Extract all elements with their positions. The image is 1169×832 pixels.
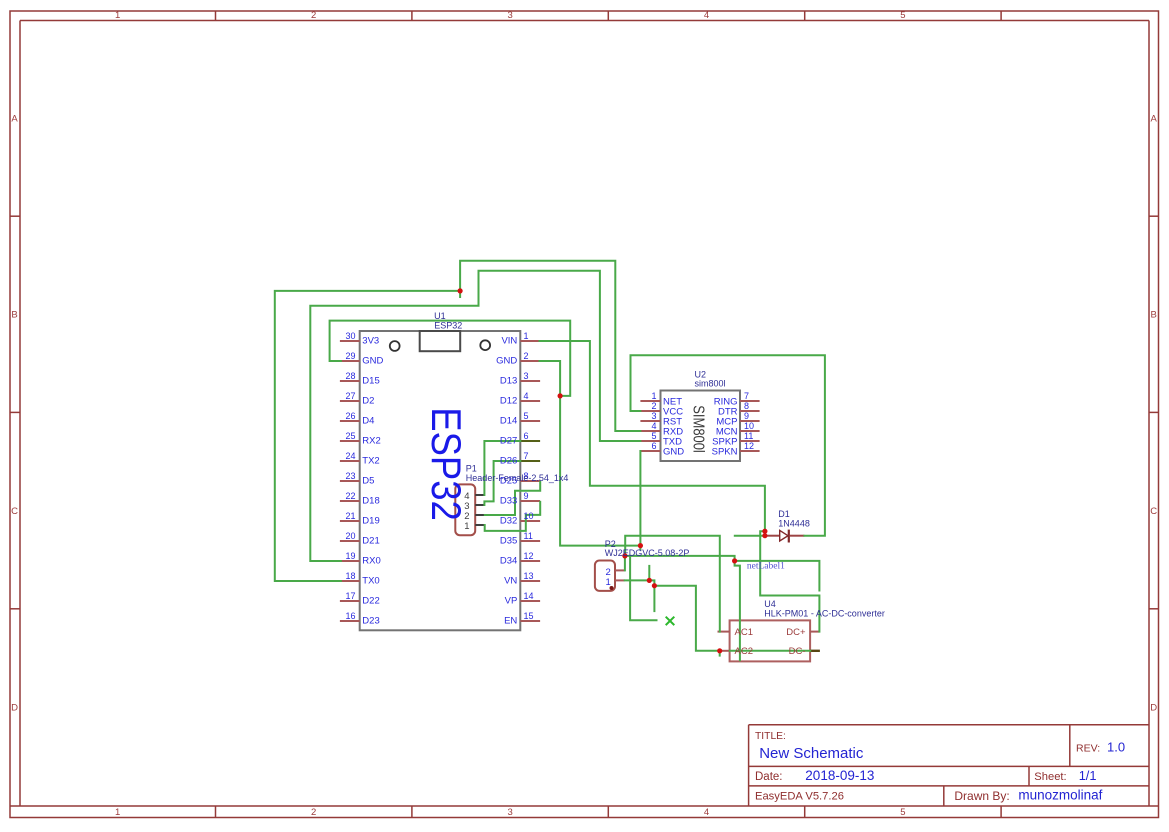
svg-text:21: 21 — [345, 511, 355, 521]
title block — [749, 725, 1149, 806]
svg-text:B: B — [1151, 310, 1157, 321]
svg-text:19: 19 — [345, 551, 355, 561]
svg-text:RX0: RX0 — [362, 555, 380, 566]
wire TX0-RXD: junction J1 up-right-down to U2 pin4 RXD — [460, 261, 640, 431]
svg-text:EN: EN — [504, 615, 517, 626]
svg-text:SPKN: SPKN — [712, 446, 738, 457]
U1 right pin numbers — [524, 331, 534, 621]
svg-text:17: 17 — [345, 591, 355, 601]
U1 value label ESP32 — [434, 320, 462, 330]
svg-text:23: 23 — [345, 471, 355, 481]
svg-text:D2: D2 — [362, 395, 374, 406]
P2 reference label — [605, 539, 616, 549]
svg-text:C: C — [1150, 506, 1157, 517]
svg-text:Date:: Date: — [755, 771, 783, 783]
svg-text:HLK-PM01 - AC-DC-converter: HLK-PM01 - AC-DC-converter — [764, 608, 885, 618]
svg-text:12: 12 — [744, 441, 754, 451]
svg-text:4: 4 — [704, 807, 709, 818]
wire D1 cathode right-up-left-down to U2 pin2 VCC — [631, 355, 825, 535]
svg-text:1: 1 — [524, 331, 529, 341]
svg-text:D27: D27 — [500, 435, 517, 446]
svg-text:TX0: TX0 — [362, 575, 379, 586]
svg-text:D1: D1 — [778, 509, 790, 519]
wire AC2 row through U4 body to DC- — [730, 650, 810, 652]
svg-text:1: 1 — [115, 807, 120, 818]
svg-text:D21: D21 — [362, 535, 379, 546]
U2 right pin stubs (7..12) — [740, 401, 760, 451]
svg-text:Header-Female-2.54_1x4: Header-Female-2.54_1x4 — [466, 473, 569, 483]
U2 left pin names — [663, 396, 684, 457]
wire stub below junction Dg — [719, 652, 721, 656]
U1 pin 6 D27 stub (wire overlap olive) — [520, 440, 540, 442]
svg-text:VP: VP — [505, 595, 518, 606]
svg-text:WJ2EDGVC-5.08-2P: WJ2EDGVC-5.08-2P — [605, 548, 690, 558]
junction Db — [622, 553, 627, 558]
svg-text:GND: GND — [496, 355, 517, 366]
wire P1 pin1 down-right-up to U1 D33 — [485, 502, 541, 531]
svg-text:5: 5 — [651, 431, 656, 441]
svg-text:14: 14 — [524, 591, 534, 601]
svg-text:D5: D5 — [362, 475, 374, 486]
U1 right pin names — [496, 335, 517, 626]
svg-text:26: 26 — [345, 411, 355, 421]
U4 pin labels — [735, 627, 806, 657]
U1 right pin stubs (pins 1..5,8..15) — [520, 341, 540, 621]
svg-text:DC-: DC- — [789, 646, 806, 657]
IC U2 sim800l body — [661, 391, 741, 462]
U2 left pin stubs (1..6) — [640, 401, 660, 451]
wire Db right to corner and down to junction Dc — [625, 556, 735, 561]
U4 reference label — [764, 599, 776, 609]
module U4 HLK-PM01 body — [730, 620, 811, 661]
svg-text:D32: D32 — [500, 515, 517, 526]
U2 right pin names — [712, 396, 738, 457]
svg-text:VN: VN — [504, 575, 517, 586]
U2 right pin numbers — [744, 391, 754, 451]
svg-text:20: 20 — [345, 531, 355, 541]
svg-text:10: 10 — [744, 421, 754, 431]
wire Db up-right-down to U4 AC1 — [625, 536, 720, 632]
U4 value label HLK-PM01 - AC-DC-converter — [764, 608, 885, 618]
svg-text:2018-09-13: 2018-09-13 — [805, 768, 874, 783]
svg-text:GND: GND — [663, 446, 684, 457]
connector P1 Header-Female body — [455, 484, 475, 535]
junction Da — [638, 543, 643, 548]
svg-text:2: 2 — [311, 10, 316, 21]
U2 center vertical text SIM800l — [689, 405, 706, 453]
svg-text:TITLE:: TITLE: — [755, 731, 786, 742]
svg-text:18: 18 — [345, 571, 355, 581]
svg-text:munozmolinaf: munozmolinaf — [1018, 788, 1102, 803]
svg-text:4: 4 — [524, 391, 529, 401]
svg-text:New Schematic: New Schematic — [759, 745, 864, 762]
svg-text:GND: GND — [362, 355, 383, 366]
svg-text:1.0: 1.0 — [1107, 739, 1125, 754]
wire GND: U1 pin2 GND right-down through J2 to junction Da — [540, 361, 640, 546]
svg-text:D15: D15 — [362, 375, 379, 386]
svg-text:RX2: RX2 — [362, 435, 380, 446]
wire VIN: U1 pin1 VIN right-down-right-down to junction E1/E2 — [540, 341, 765, 536]
svg-text:1: 1 — [606, 577, 611, 588]
wire no-connect branch down from Db rail — [630, 556, 656, 620]
wire D1 anode lead wire — [735, 535, 765, 537]
svg-text:5: 5 — [900, 10, 905, 21]
svg-text:7: 7 — [524, 451, 529, 461]
svg-text:D4: D4 — [362, 415, 374, 426]
svg-text:10: 10 — [524, 511, 534, 521]
svg-text:27: 27 — [345, 391, 355, 401]
svg-text:ESP32: ESP32 — [423, 407, 470, 521]
U2 reference label — [695, 369, 707, 379]
U1 pin 7 D26 stub (wire overlap olive) — [520, 460, 540, 462]
svg-text:VIN: VIN — [501, 335, 517, 346]
P1 pin numbers 4,3,2,1 — [464, 491, 469, 532]
svg-text:D35: D35 — [500, 535, 517, 546]
svg-text:D23: D23 — [362, 615, 379, 626]
svg-text:D13: D13 — [500, 375, 517, 386]
svg-text:1: 1 — [115, 10, 120, 21]
svg-text:1/1: 1/1 — [1079, 768, 1097, 783]
net label netLabel1 — [747, 561, 785, 571]
svg-text:1: 1 — [651, 391, 656, 401]
wire TX0-RXD: U1 pin18 TX0 left-up-right to junction J1 — [275, 291, 459, 581]
U4 pin stub AC2 — [720, 650, 730, 652]
wire RX0-TXD: U1 pin19 RX0 to U2 pin5 TXD — [310, 271, 640, 561]
svg-text:28: 28 — [345, 371, 355, 381]
wire GND: U1 pin29 GND left-up-right to junction J2 — [330, 321, 571, 396]
svg-text:D: D — [11, 703, 18, 714]
D1 value label 1N4448 — [778, 519, 810, 529]
U4 pin stub AC1 — [718, 631, 730, 633]
wire P2 pin2 up to junction Db — [624, 556, 626, 571]
D1 reference label — [778, 509, 790, 519]
svg-text:A: A — [11, 114, 18, 125]
svg-text:3: 3 — [524, 371, 529, 381]
svg-text:25: 25 — [345, 431, 355, 441]
wire Df right-down-right to U4 AC2 junction Dg — [654, 586, 719, 651]
svg-text:D18: D18 — [362, 495, 379, 506]
svg-text:13: 13 — [524, 571, 534, 581]
svg-text:4: 4 — [651, 421, 656, 431]
svg-text:9: 9 — [524, 491, 529, 501]
wire P1 pin2 right-up to U1 D25 — [485, 482, 540, 515]
svg-text:15: 15 — [524, 611, 534, 621]
U1 reference label — [434, 311, 446, 321]
svg-text:16: 16 — [345, 611, 355, 621]
WIRES — [275, 261, 825, 661]
U1 mounting circle right — [480, 340, 490, 350]
P2 value label WJ2EDGVC-5.08-2P — [605, 548, 690, 558]
svg-text:A: A — [1151, 114, 1158, 125]
junction Df — [652, 583, 657, 588]
wire Dc down-jog through U4 body — [735, 561, 740, 660]
wire GND: U2 pin6 GND down to junction Da — [639, 451, 641, 550]
P1 reference label — [466, 464, 477, 474]
svg-text:C: C — [11, 506, 18, 517]
svg-text:1: 1 — [464, 521, 469, 532]
U1 antenna notch — [420, 331, 461, 351]
svg-text:D: D — [1150, 703, 1157, 714]
svg-text:D14: D14 — [500, 415, 517, 426]
P2 pin1 marker dot — [610, 586, 614, 590]
svg-text:9: 9 — [744, 411, 749, 421]
svg-text:11: 11 — [744, 431, 753, 441]
svg-text:4: 4 — [704, 10, 709, 21]
IC U1 ESP32 body — [360, 331, 521, 630]
svg-text:11: 11 — [524, 531, 533, 541]
svg-text:D34: D34 — [500, 555, 517, 566]
junction Dg — [717, 648, 722, 653]
svg-text:D22: D22 — [362, 595, 379, 606]
svg-text:EasyEDA V5.7.26: EasyEDA V5.7.26 — [755, 791, 844, 803]
wire stub below junction Df — [653, 587, 655, 611]
wire stub above junction De — [648, 566, 650, 580]
svg-text:30: 30 — [345, 331, 355, 341]
svg-text:7: 7 — [744, 391, 749, 401]
svg-text:sim800l: sim800l — [695, 379, 726, 389]
svg-text:2: 2 — [311, 807, 316, 818]
diode D1 1N4448 — [765, 530, 805, 543]
svg-text:D12: D12 — [500, 395, 517, 406]
U2 value label sim800l — [695, 379, 726, 389]
svg-text:netLabel1: netLabel1 — [747, 561, 785, 571]
svg-text:TX2: TX2 — [362, 455, 379, 466]
P1 value label Header-Female-2.54_1x4 — [466, 473, 569, 483]
wire P1 pin4 up to U1 D27 — [484, 441, 520, 495]
P1 pin stubs — [475, 495, 484, 525]
svg-text:1N4448: 1N4448 — [778, 519, 810, 529]
title block text — [755, 731, 1125, 803]
U4 pin stub DC+ — [810, 631, 819, 633]
no-connect X marker — [666, 617, 675, 625]
U1 big ESP32 text — [423, 407, 470, 521]
svg-text:5: 5 — [524, 411, 529, 421]
junction Dc — [732, 558, 737, 563]
svg-text:D26: D26 — [500, 455, 517, 466]
wire P1 pin3 up to U1 D26 — [484, 461, 520, 505]
U1 mounting circle left — [390, 341, 400, 351]
wire De right-down to junction Df — [649, 580, 654, 585]
svg-text:6: 6 — [651, 441, 656, 451]
svg-text:B: B — [11, 310, 17, 321]
svg-text:29: 29 — [345, 351, 355, 361]
U4 pin stub DC- (wire overlap dark) — [810, 650, 820, 652]
wire stub below junction J1 — [459, 292, 461, 297]
junction E1 — [762, 529, 767, 534]
svg-text:D33: D33 — [500, 495, 517, 506]
U1 left pin stubs (pins 30..16) — [340, 341, 360, 621]
svg-text:3: 3 — [507, 10, 512, 21]
svg-text:DC+: DC+ — [786, 627, 806, 638]
junction J2 — [558, 393, 563, 398]
svg-text:REV:: REV: — [1076, 742, 1100, 754]
junction J1 — [458, 288, 463, 293]
svg-text:AC2: AC2 — [735, 646, 753, 657]
connector P2 WJ2EDGVC body — [595, 561, 615, 591]
svg-text:SIM800l: SIM800l — [689, 405, 706, 453]
svg-text:3: 3 — [507, 807, 512, 818]
svg-text:8: 8 — [744, 401, 749, 411]
svg-text:2: 2 — [524, 351, 529, 361]
junction E2 — [762, 533, 767, 538]
wire VIN branch: junction E1 left-down-right to U4 DC+ — [760, 531, 819, 631]
svg-text:3: 3 — [651, 411, 656, 421]
U1 left pin names — [362, 335, 383, 626]
svg-text:6: 6 — [524, 431, 529, 441]
svg-text:3V3: 3V3 — [362, 335, 379, 346]
junction De — [647, 578, 652, 583]
svg-text:22: 22 — [345, 491, 355, 501]
svg-text:2: 2 — [651, 401, 656, 411]
svg-text:Sheet:: Sheet: — [1034, 771, 1066, 783]
svg-text:12: 12 — [524, 551, 534, 561]
wire P2 pin1 right to junction De — [625, 579, 650, 581]
U1 left pin numbers — [345, 331, 355, 621]
wire Dc right-down dangling end — [735, 561, 820, 591]
svg-text:AC1: AC1 — [735, 627, 753, 638]
svg-text:5: 5 — [900, 807, 905, 818]
svg-text:24: 24 — [345, 451, 355, 461]
P2 pin numbers 2,1 — [606, 567, 611, 588]
svg-text:D19: D19 — [362, 515, 379, 526]
svg-text:Drawn By:: Drawn By: — [954, 789, 1009, 803]
P2 pin stubs — [615, 570, 625, 580]
svg-text:ESP32: ESP32 — [434, 320, 462, 330]
U2 left pin numbers — [651, 391, 656, 451]
